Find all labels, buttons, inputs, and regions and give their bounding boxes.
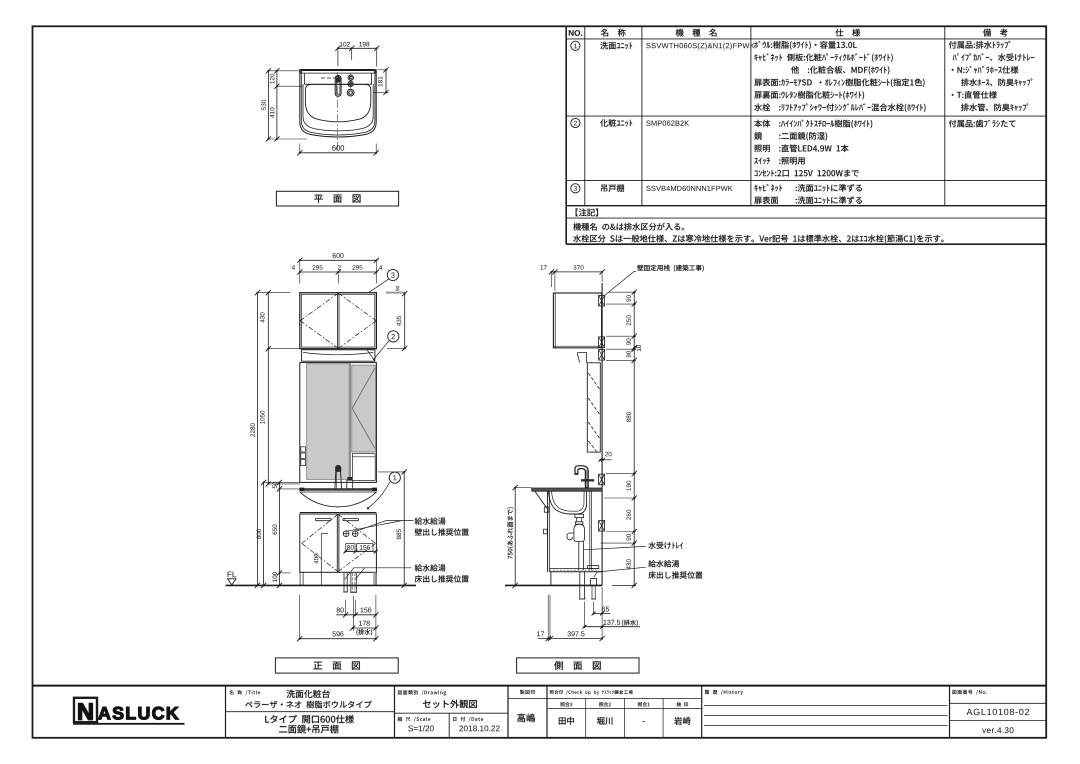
front view: counter & bowl front	[299, 488, 377, 507]
front view: leader wall supply	[347, 517, 469, 535]
title block: drawing title cell	[226, 690, 395, 734]
notes block	[573, 208, 943, 243]
side view: floor pipes	[579, 572, 597, 599]
side view: dim 750	[507, 485, 531, 588]
title block: drawing-type cell	[395, 690, 509, 738]
side view: leader water tray	[583, 542, 683, 550]
front view: dim 435	[387, 291, 407, 351]
front view: lamp cover	[302, 350, 375, 361]
plan view: dimension 102/198	[335, 42, 379, 67]
title block: check-up stamps	[547, 690, 702, 738]
front view: floor pipes	[343, 573, 357, 592]
table row 3: wall cabinet	[571, 184, 862, 204]
side view: leader floor supply	[594, 560, 702, 579]
plan view: dimension 181	[374, 67, 389, 95]
front view: wall outlet marks	[343, 531, 378, 554]
front view: top dims 600 & 4/295/2/295/4	[292, 253, 382, 283]
front view: dim 2280	[250, 290, 260, 588]
front view: base cabinet doors	[300, 513, 377, 573]
front view label box	[275, 658, 398, 673]
plan view: dimension 120/410	[270, 68, 280, 141]
side view: water receiving tray	[588, 566, 599, 569]
side view: leader wall rail	[605, 265, 704, 296]
plan view: dimension 600	[297, 144, 379, 156]
side view: mirror cabinet side	[578, 352, 601, 452]
side view: counter section	[532, 488, 602, 534]
table row 2: mirror unit	[571, 118, 1016, 176]
side view: wall cabinet side	[553, 293, 601, 348]
plan view: dimension 530	[261, 68, 307, 141]
balloon 3	[369, 269, 398, 292]
balloon 2	[373, 331, 399, 360]
side view: drain trap	[567, 514, 585, 570]
side view label box	[517, 658, 639, 673]
front view: mirror unit	[300, 363, 377, 483]
front view: dim 400	[314, 534, 328, 585]
title block: drafter stamp	[508, 690, 547, 723]
side view: wall line	[601, 283, 603, 585]
front view: dim 430/1050	[260, 290, 271, 486]
front view: leader floor supply	[345, 564, 469, 582]
table row 1: washbasin unit	[571, 41, 1034, 112]
title block: history cell	[704, 690, 948, 726]
side view: cabinet side	[548, 491, 602, 585]
table header row	[569, 29, 1008, 37]
side view: bottom dims 17/397.5	[537, 587, 605, 641]
side view: dim 137.5	[582, 602, 640, 629]
plan view: washbasin outline	[299, 69, 376, 137]
front view: bottom dims 80/156/178/596	[297, 595, 379, 641]
plan view: faucet & holes	[321, 72, 354, 150]
side view: dim 65	[592, 602, 611, 616]
title block grid	[33, 686, 1047, 738]
floor line FL	[226, 572, 417, 586]
parts table grid	[566, 26, 1046, 244]
side view: wall fixing rails	[599, 295, 605, 531]
front view: toe kick	[300, 572, 376, 585]
front view: rail mark 90	[386, 286, 405, 294]
side view: FL line	[505, 584, 602, 586]
front view: wall cabinet	[300, 293, 377, 349]
side view: right dim ladder	[601, 290, 642, 588]
front view: left extension lines	[257, 293, 301, 573]
title block: drawing number cell	[950, 690, 1047, 733]
side view: faucet	[575, 466, 595, 488]
plan view label box	[276, 191, 398, 206]
front view: dim 800	[257, 480, 267, 588]
side view: bowl section	[549, 491, 587, 514]
side view: dim 20	[598, 452, 611, 462]
front view: dim 50/650/100	[272, 480, 282, 588]
front view: dim 885	[378, 469, 407, 588]
NASLUCK logo	[73, 698, 185, 724]
side view: supply pipe	[590, 491, 592, 570]
balloon 1	[367, 472, 400, 509]
front view: faucet & accessory	[335, 465, 353, 489]
side view: top dims 17/370	[540, 265, 604, 291]
